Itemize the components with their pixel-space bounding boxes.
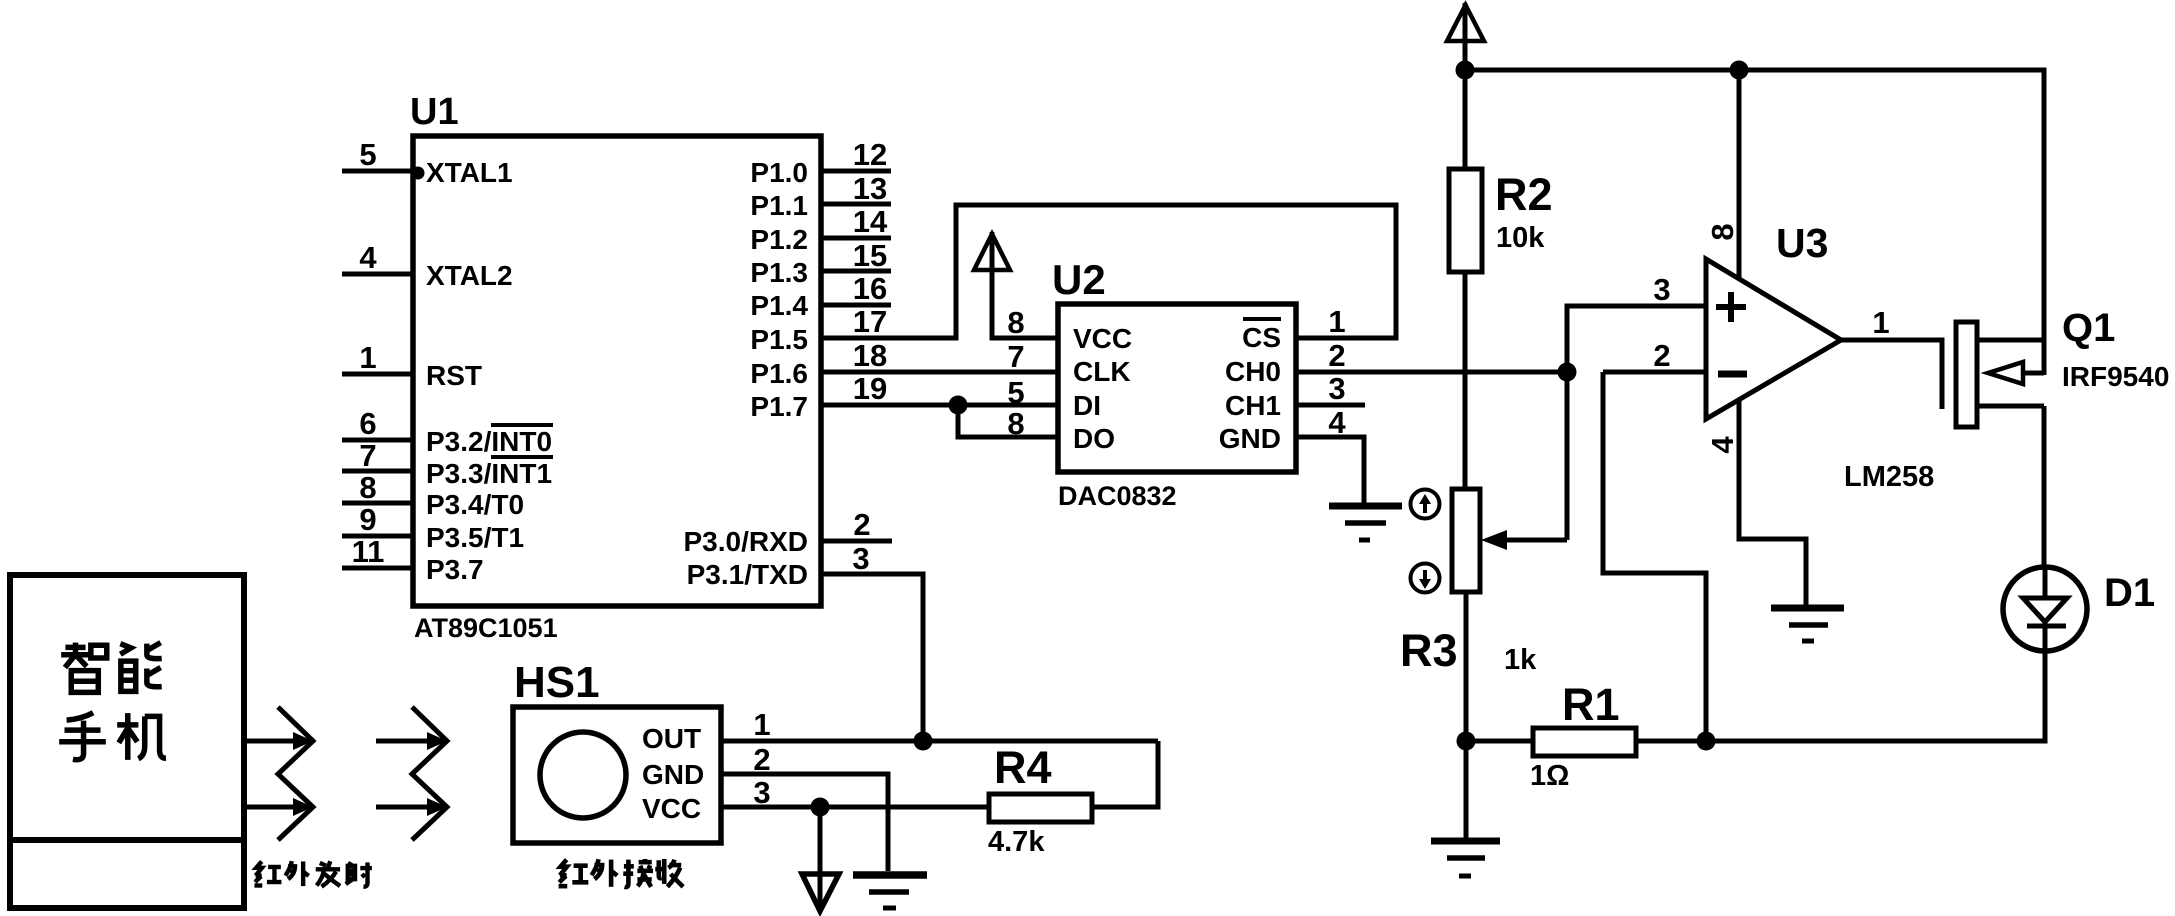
svg-text:VCC: VCC	[1073, 323, 1132, 354]
svg-text:16: 16	[853, 271, 887, 306]
svg-text:U2: U2	[1052, 256, 1106, 303]
svg-text:1: 1	[1872, 305, 1889, 340]
svg-text:P3.2/INT0: P3.2/INT0	[426, 426, 552, 457]
R3 adjust symbol down	[1411, 564, 1440, 593]
U2 pin numbers left	[1007, 305, 1024, 441]
U1 pin 14 wire (P1.2)	[821, 204, 891, 239]
VCC arrow for U2 pin 8	[974, 232, 1058, 338]
junction CH0 node	[1558, 363, 1577, 382]
svg-text:18: 18	[853, 338, 887, 373]
junction rail/R2	[1456, 61, 1475, 80]
junction OUT/TXD	[914, 732, 933, 751]
svg-text:P1.4: P1.4	[750, 290, 808, 321]
op-amp pin 4 wire to ground	[1705, 400, 1806, 607]
wire P3.1/TXD to HS1 OUT	[821, 574, 923, 741]
svg-text:Q1: Q1	[2062, 306, 2115, 350]
wire P1.6 to U2 CLK	[821, 370, 1058, 375]
junction R3/R1	[1457, 732, 1476, 751]
resistor R2	[1449, 70, 1482, 489]
svg-text:DAC0832: DAC0832	[1058, 481, 1177, 511]
wire P1.5 to U2 CS loop	[821, 205, 1396, 338]
HS1 lens circle	[540, 732, 626, 818]
svg-text:P3.7: P3.7	[426, 554, 484, 585]
op-amp feedback wire pin2 to R1	[1603, 372, 1706, 741]
svg-text:1Ω: 1Ω	[1530, 760, 1569, 792]
svg-text:P1.0: P1.0	[750, 157, 808, 188]
svg-text:HS1: HS1	[514, 658, 600, 707]
label D1	[2104, 571, 2155, 615]
wire U2 CH0 to op-amp input node	[1296, 370, 1567, 375]
svg-text:5: 5	[1007, 375, 1024, 410]
svg-text:11: 11	[352, 534, 385, 569]
ground U2	[1329, 506, 1402, 540]
svg-text:P3.0/RXD: P3.0/RXD	[684, 526, 809, 557]
label Q1	[2062, 306, 2115, 350]
U1 pin 5 wire (XTAL1)	[342, 137, 413, 172]
Q1 source stub	[1977, 404, 2044, 409]
overline INT1	[491, 455, 553, 459]
svg-text:14: 14	[853, 204, 888, 239]
svg-text:1k: 1k	[1504, 644, 1537, 676]
resistor R1	[1466, 728, 1706, 756]
ground R3	[1431, 741, 1500, 876]
svg-text:P1.2: P1.2	[750, 224, 808, 255]
wire junction to U2 DO	[958, 405, 1058, 437]
svg-text:15: 15	[853, 238, 887, 273]
svg-text:VCC: VCC	[642, 793, 701, 824]
svg-text:8: 8	[1007, 305, 1024, 340]
ground HS1	[853, 875, 927, 908]
IC U1 box	[413, 136, 821, 606]
svg-text:OUT: OUT	[642, 723, 701, 754]
junction P1.7/DI/DO	[949, 396, 968, 415]
svg-text:2: 2	[753, 742, 770, 777]
Q1 drain stub	[1977, 338, 2044, 343]
svg-text:CH1: CH1	[1225, 390, 1281, 421]
svg-text:P1.3: P1.3	[750, 257, 808, 288]
svg-text:GND: GND	[1219, 423, 1281, 454]
svg-text:19: 19	[853, 371, 887, 406]
svg-text:7: 7	[359, 438, 376, 473]
svg-text:2: 2	[853, 507, 870, 542]
op-amp pin 3 label	[1653, 272, 1670, 307]
svg-text:2: 2	[1328, 338, 1345, 373]
diode D1	[2003, 567, 2087, 651]
U2 right pin labels	[1219, 322, 1281, 454]
svg-text:XTAL1: XTAL1	[426, 157, 513, 188]
svg-text:6: 6	[359, 406, 376, 441]
svg-text:XTAL2: XTAL2	[426, 260, 513, 291]
HS1 pin labels	[642, 723, 704, 824]
svg-text:U3: U3	[1776, 220, 1828, 266]
svg-text:LM258: LM258	[1844, 461, 1934, 493]
IC HS1 box	[513, 707, 721, 843]
svg-text:4: 4	[1705, 436, 1740, 454]
XTAL1 clock dot	[412, 167, 425, 180]
IR wave arrow pair 1	[245, 707, 313, 840]
text 智能 (smartphone line 1)	[61, 643, 162, 693]
op-amp output pin 1 wire	[1841, 305, 1942, 409]
potentiometer R3 body	[1452, 489, 1480, 741]
label R3	[1400, 625, 1458, 676]
U1 pin 15 wire (P1.3)	[821, 238, 891, 273]
U1 pin 11 wire (P3.7)	[342, 534, 413, 569]
svg-text:P1.1: P1.1	[750, 190, 808, 221]
U1 pin 19 label	[853, 371, 887, 406]
U1 pin 9 wire (P3.5)	[342, 502, 413, 537]
svg-text:P3.3/INT1: P3.3/INT1	[426, 458, 552, 489]
U2 pin numbers right	[1328, 304, 1346, 440]
U1 pin 1 wire (RST)	[342, 340, 413, 375]
R3 adjust symbol up	[1411, 490, 1440, 519]
U1 pin 17 label	[853, 304, 887, 339]
label U1	[410, 91, 459, 133]
svg-text:3: 3	[852, 541, 869, 576]
overline CS	[1243, 317, 1281, 321]
power rail to Q1 drain	[1465, 70, 2044, 375]
wire U2 GND pin 4	[1296, 437, 1364, 504]
svg-text:R4: R4	[994, 742, 1052, 793]
U1 pin 6 wire (P3.2)	[342, 406, 413, 441]
op-amp pin 8 wire	[1705, 70, 1740, 278]
svg-text:8: 8	[1705, 223, 1740, 240]
svg-text:4.7k: 4.7k	[988, 826, 1045, 858]
svg-text:DI: DI	[1073, 390, 1101, 421]
label AT89C1051	[414, 613, 558, 643]
label 4.7k	[988, 826, 1045, 858]
HS1 pin 3 wire (VCC)	[721, 775, 989, 810]
svg-text:P1.6: P1.6	[750, 358, 808, 389]
svg-text:4: 4	[359, 240, 377, 275]
svg-text:1: 1	[1328, 304, 1345, 339]
svg-text:7: 7	[1007, 339, 1024, 374]
resistor R4	[989, 741, 1158, 822]
svg-text:P1.5: P1.5	[750, 324, 808, 355]
svg-text:AT89C1051: AT89C1051	[414, 613, 558, 643]
svg-text:P1.7: P1.7	[750, 391, 808, 422]
U1 pin 4 wire (XTAL2)	[342, 240, 413, 275]
svg-text:P3.4/T0: P3.4/T0	[426, 489, 524, 520]
svg-text:GND: GND	[642, 759, 704, 790]
U1 pin 2 wire (P3.0/RXD)	[821, 507, 892, 542]
U1 pin 16 wire (P1.4)	[821, 271, 891, 306]
stub U2 CH1 pin 3	[1296, 403, 1365, 408]
overline INT0	[491, 423, 553, 427]
U1 right pin labels P1.x	[684, 157, 809, 590]
label 1ohm	[1530, 760, 1569, 792]
label DAC0832	[1058, 481, 1177, 511]
svg-text:R1: R1	[1562, 679, 1620, 730]
op-amp plus sign	[1716, 292, 1746, 322]
wire Q1 source down to D1	[2042, 406, 2047, 567]
op-amp U3 triangle	[1706, 259, 1841, 419]
svg-text:1: 1	[359, 340, 376, 375]
MOSFET Q1 gate bar	[1956, 322, 1977, 427]
label IRF9540	[2062, 361, 2169, 392]
svg-text:RST: RST	[426, 360, 482, 391]
U1 pin 13 wire (P1.1)	[821, 171, 891, 206]
wire P1.7 to U2 DI	[821, 403, 1058, 408]
HS1 pin 1 wire (OUT)	[721, 707, 1158, 742]
ground op-amp	[1771, 608, 1844, 641]
svg-text:CS: CS	[1242, 322, 1281, 353]
junction rail/op-amp pin8	[1730, 61, 1749, 80]
svg-text:R3: R3	[1400, 625, 1458, 676]
svg-text:3: 3	[1653, 272, 1670, 307]
op-amp minus sign	[1718, 371, 1747, 378]
label U2	[1052, 256, 1106, 303]
IC U2 box	[1058, 304, 1296, 472]
smartphone box	[10, 575, 244, 908]
svg-text:9: 9	[359, 502, 376, 537]
junction VCC/arrow	[811, 798, 830, 817]
label R1	[1562, 679, 1620, 730]
svg-text:2: 2	[1653, 338, 1670, 373]
label 10k	[1496, 222, 1545, 254]
IR wave arrow pair 2	[376, 707, 447, 840]
power arrow down	[802, 807, 839, 911]
svg-text:CLK: CLK	[1073, 356, 1131, 387]
svg-text:3: 3	[753, 775, 770, 810]
label HS1	[514, 658, 600, 707]
svg-text:U1: U1	[410, 91, 459, 133]
label LM258	[1844, 461, 1934, 493]
svg-text:8: 8	[359, 470, 376, 505]
svg-text:1: 1	[753, 707, 770, 742]
svg-text:17: 17	[853, 304, 887, 339]
HS1 pin 2 wire (GND)	[721, 742, 888, 871]
label 红外接收 (IR receive)	[559, 859, 684, 887]
R3 wiper arrow	[1481, 530, 1567, 550]
svg-text:DO: DO	[1073, 423, 1115, 454]
U1 pin 7 wire (P3.3)	[342, 438, 413, 473]
label R4	[994, 742, 1052, 793]
text 手机 (smartphone line 2)	[59, 713, 166, 760]
svg-text:R2: R2	[1495, 169, 1553, 220]
svg-text:P3.5/T1: P3.5/T1	[426, 522, 524, 553]
U1 pin 12 wire (P1.0)	[821, 137, 891, 172]
Q1 body arrow	[1988, 362, 2044, 384]
svg-text:P3.1/TXD: P3.1/TXD	[687, 559, 808, 590]
U1 pin 8 wire (P3.4)	[342, 470, 413, 505]
svg-text:5: 5	[359, 137, 376, 172]
svg-text:8: 8	[1007, 406, 1024, 441]
main VCC arrow top	[1447, 3, 1484, 70]
label 红外发射 (IR transmit)	[254, 861, 371, 887]
svg-text:CH0: CH0	[1225, 356, 1281, 387]
svg-text:13: 13	[853, 171, 887, 206]
label U3	[1776, 220, 1828, 266]
junction R1 right	[1697, 732, 1716, 751]
wire wiper to op-amp pin 3	[1567, 306, 1706, 540]
label R2	[1495, 169, 1553, 220]
wire D1 to R1 line	[1706, 651, 2045, 741]
U1 pin 18 label	[853, 338, 887, 373]
U1 pin 3 label	[852, 541, 869, 576]
label 1k	[1504, 644, 1537, 676]
svg-text:3: 3	[1328, 371, 1345, 406]
U2 left pin labels	[1073, 323, 1132, 454]
svg-text:IRF9540: IRF9540	[2062, 361, 2169, 392]
svg-text:12: 12	[853, 137, 887, 172]
U1 left pin labels	[426, 157, 552, 585]
op-amp pin 2 wire	[1603, 338, 1706, 373]
svg-text:10k: 10k	[1496, 222, 1545, 254]
svg-text:D1: D1	[2104, 571, 2155, 615]
